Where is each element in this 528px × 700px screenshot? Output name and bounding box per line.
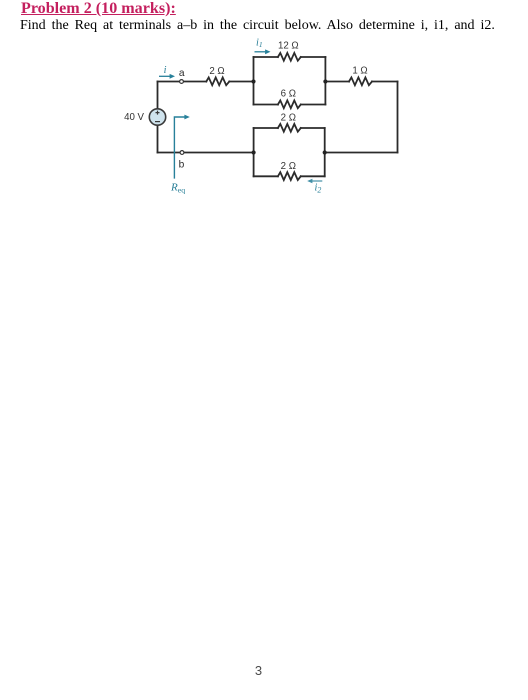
svg-text:i2: i2 <box>315 183 322 195</box>
wire: 2ohm lower branch right lead <box>301 175 325 177</box>
resistor 2ohm upper branch <box>278 124 301 132</box>
svg-text:12 Ω: 12 Ω <box>278 41 299 52</box>
svg-text:40 V: 40 V <box>124 112 144 123</box>
svg-text:i1: i1 <box>256 37 263 49</box>
Req arrow <box>174 115 189 179</box>
wire: 12ohm branch left lead <box>254 56 278 58</box>
svg-text:Req: Req <box>170 181 185 194</box>
current arrow i1 <box>255 49 271 54</box>
wire: bottom pair right vertical <box>324 128 326 176</box>
wire: left rail bottom (corner up to source bottom) <box>157 125 159 152</box>
wire: terminal b to bottom-left corner <box>158 152 180 154</box>
resistor 12ohm <box>278 53 301 61</box>
wire: top pair left vertical <box>253 57 255 105</box>
page number <box>0 663 517 678</box>
voltage source V1 40V <box>149 109 165 125</box>
wire: node B to 1ohm <box>325 81 349 83</box>
terminal b <box>180 151 184 155</box>
node C (bottom pair left) <box>252 150 256 154</box>
resistor R 2ohm series <box>206 77 229 85</box>
current arrow i <box>159 74 175 79</box>
terminal a <box>180 80 184 84</box>
wire: 2ohm upper branch left lead <box>254 127 278 129</box>
node B (top pair right) <box>323 79 327 83</box>
resistor 2ohm lower branch <box>278 172 301 180</box>
node D (bottom pair right) <box>323 150 327 154</box>
wire: 12ohm branch right lead <box>301 56 326 58</box>
svg-text:6 Ω: 6 Ω <box>281 89 296 100</box>
wire: node C to terminal b <box>184 152 253 154</box>
wire: 1ohm to top-right corner <box>372 81 398 83</box>
node A (top pair left) <box>251 79 255 83</box>
wire: 2ohm upper branch right lead <box>301 127 325 129</box>
wire: bottom pair left vertical <box>253 128 255 176</box>
wire: terminal a to 2ohm resistor <box>184 81 207 83</box>
wire: 6ohm branch right lead <box>301 104 326 106</box>
body text <box>20 18 495 34</box>
wire: 2ohm lower branch left lead <box>254 175 278 177</box>
resistor 6ohm <box>278 100 301 108</box>
current arrow i2 <box>307 179 322 183</box>
wire: top-left corner to terminal a <box>158 81 180 83</box>
svg-text:b: b <box>179 160 185 171</box>
wire: top pair right vertical <box>324 57 326 105</box>
wire: right rail vertical <box>397 82 399 153</box>
wire: bottom-right corner to node D <box>325 152 398 154</box>
wire: 6ohm branch left lead <box>254 104 278 106</box>
svg-text:a: a <box>179 68 185 79</box>
title <box>21 0 176 18</box>
svg-text:2 Ω: 2 Ω <box>209 66 224 77</box>
wire: 2ohm resistor to node A <box>229 81 253 83</box>
svg-text:1 Ω: 1 Ω <box>352 65 367 76</box>
svg-text:i: i <box>164 65 167 76</box>
resistor 1ohm <box>349 77 372 85</box>
wire: left rail top (source top to top-left corner) <box>157 82 159 109</box>
svg-text:2 Ω: 2 Ω <box>281 113 296 124</box>
svg-text:2 Ω: 2 Ω <box>281 161 296 172</box>
